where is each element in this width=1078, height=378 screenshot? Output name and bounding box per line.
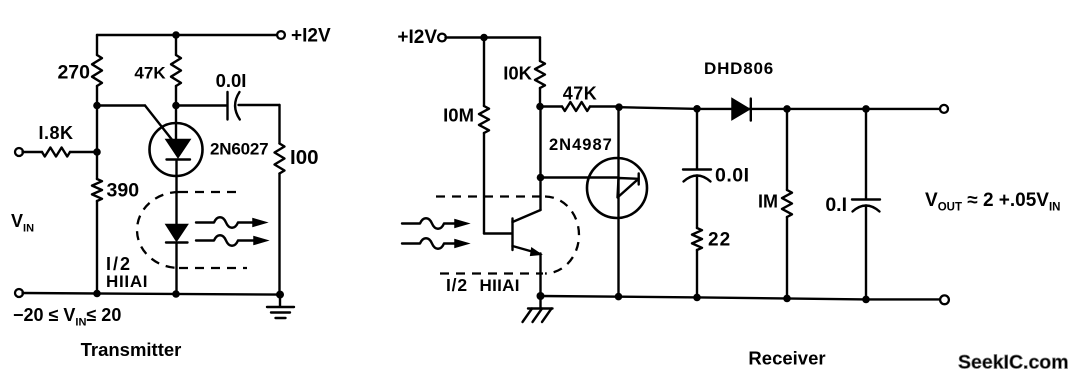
transistor Q2 collector lead: [513, 210, 541, 222]
transistor Q2 emitter lead: [513, 246, 540, 254]
label 1/2 H11A1 transmitter: [106, 254, 148, 291]
svg-text:+I2V: +I2V: [397, 27, 437, 48]
transistor Q1 2N6027 triangle: [166, 140, 190, 158]
wire cathode to LED: [175, 161, 177, 225]
wire +12V rail receiver: [446, 36, 541, 38]
node bottom rail LED: [172, 290, 180, 298]
wire mid rail left: [97, 104, 145, 106]
svg-text:I0M: I0M: [443, 105, 474, 126]
op-amp circle 2N4987: [587, 158, 647, 218]
LED D1 bar: [166, 241, 188, 243]
svg-text:HIIAI: HIIAI: [480, 276, 520, 295]
optocoupler dashed envelope receiver top: [436, 195, 545, 197]
wire gate branch to 2N4987: [541, 176, 619, 178]
terminal +12V transmitter: [277, 31, 285, 39]
node input junction: [93, 148, 101, 156]
wire emitter to bottom rail: [539, 254, 541, 297]
transistor Q2 phototransistor base bar: [511, 219, 513, 251]
wire LED to bottom rail: [175, 243, 177, 294]
optocoupler dashed envelope receiver bottom: [440, 272, 543, 274]
node bottom 0.1: [862, 296, 870, 304]
terminal +12V receiver: [438, 34, 446, 42]
optocoupler dashed envelope transmitter top: [179, 191, 240, 193]
node gate branch: [537, 174, 545, 182]
wire anode into 2N6027: [175, 106, 177, 141]
transistor Q1 2N6027 cathode bar: [167, 158, 191, 160]
transistor Q3 2N4987 triangle: [618, 178, 639, 198]
optocoupler dashed envelope transmitter arc: [137, 192, 179, 268]
resistor R 10K: [503, 38, 545, 107]
transistor Q2 emitter arrowhead: [530, 248, 541, 256]
wire collector vertical: [539, 107, 541, 211]
node 47K junction: [536, 103, 544, 111]
svg-text:I/2: I/2: [106, 254, 132, 274]
wire bottom rail receiver: [541, 296, 941, 299]
transistor Q3 2N4987 bar: [638, 174, 640, 185]
wire capacitor to right branch: [239, 104, 280, 106]
svg-text:390: 390: [107, 180, 140, 202]
resistor R 10M: [443, 38, 489, 234]
light arrow 2 transmitter: [196, 235, 267, 246]
svg-text:DHD806: DHD806: [704, 59, 774, 78]
resistor R 1M: [758, 109, 792, 299]
resistor R 270: [57, 35, 102, 106]
node rail 2N4987: [615, 103, 623, 111]
svg-text:Receiver: Receiver: [748, 348, 825, 369]
resistor R 22: [692, 228, 731, 297]
light arrow 1 transmitter: [196, 217, 266, 228]
node rail 1M: [783, 105, 791, 113]
capacitor C 0.01 receiver: [683, 109, 750, 228]
svg-text:−20 ≤ VIN≤ 20: −20 ≤ VIN≤ 20: [13, 305, 121, 329]
svg-text:I0K: I0K: [503, 63, 532, 84]
op-amp circle 2N6027 PUT: [150, 123, 203, 176]
node top rail / 47K junction: [172, 31, 180, 39]
optocoupler dashed envelope transmitter bottom: [179, 267, 247, 269]
svg-text:VIN: VIN: [11, 211, 34, 235]
resistor R 47K transmitter: [134, 35, 181, 106]
terminal output top: [940, 105, 948, 113]
light arrow 2 receiver: [402, 238, 468, 249]
capacitor C 0.1: [825, 109, 880, 300]
LED D1 triangle: [166, 225, 188, 242]
svg-text:HIIAI: HIIAI: [106, 272, 148, 291]
node bottom rail ground: [276, 291, 284, 299]
svg-text:0.0I: 0.0I: [715, 165, 750, 187]
svg-text:VOUT ≈ 2 +.05VIN: VOUT ≈ 2 +.05VIN: [925, 190, 1060, 214]
wire gate diagonal into 2N6027: [145, 106, 173, 142]
capacitor C 0.01 transmitter: [216, 70, 247, 120]
svg-text:+I2V: +I2V: [291, 26, 331, 47]
svg-text:0.0I: 0.0I: [216, 70, 247, 91]
svg-text:Transmitter: Transmitter: [81, 339, 182, 360]
node 10M junction: [480, 34, 488, 42]
ground earth transmitter: [267, 295, 294, 318]
svg-text:I.8K: I.8K: [38, 123, 73, 143]
node bottom 22: [693, 294, 701, 302]
wire base lead: [484, 232, 512, 234]
svg-text:2N4987: 2N4987: [549, 136, 613, 154]
node mid rail left junction: [93, 102, 101, 110]
resistor R 1.8K: [23, 123, 98, 157]
node bottom emitter/ground: [537, 292, 545, 300]
resistor R 47K receiver: [540, 84, 619, 112]
svg-text:IM: IM: [758, 192, 778, 212]
optocoupler dashed envelope receiver arc: [545, 197, 579, 274]
ground chassis receiver: [523, 296, 553, 322]
resistor R 100: [275, 105, 319, 295]
wire top rail receiver: [619, 107, 941, 109]
wire bottom rail transmitter: [23, 293, 281, 295]
wire mid rail to capacitor: [176, 104, 227, 106]
svg-text:47K: 47K: [134, 64, 166, 83]
svg-text:I/2: I/2: [446, 275, 468, 295]
node rail 0.01: [693, 105, 701, 113]
svg-text:I00: I00: [290, 146, 319, 169]
svg-text:270: 270: [57, 62, 90, 84]
light arrow 1 receiver: [402, 218, 468, 229]
diode DHD806: [704, 59, 774, 121]
resistor R 390: [92, 106, 139, 294]
terminal input Vin: [15, 148, 23, 156]
wire top +12V rail: [97, 34, 278, 36]
node bottom 2N4987: [615, 293, 623, 301]
node bottom 1M: [783, 295, 791, 303]
node mid rail anode junction: [172, 102, 180, 110]
node rail 0.1: [862, 105, 870, 113]
svg-text:2N6027: 2N6027: [210, 140, 268, 159]
node bottom rail 390: [93, 290, 101, 298]
svg-text:SeekIC.com: SeekIC.com: [958, 352, 1069, 374]
svg-text:0.I: 0.I: [825, 194, 847, 216]
terminal output bottom: [940, 295, 949, 304]
terminal bottom left: [15, 289, 23, 297]
wire 2N4987 vertical: [617, 107, 619, 296]
svg-text:47K: 47K: [563, 84, 598, 104]
svg-text:22: 22: [708, 230, 731, 251]
